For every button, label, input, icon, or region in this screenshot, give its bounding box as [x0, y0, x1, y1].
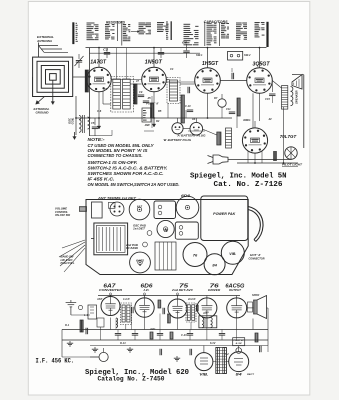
wire tube filament links: [111, 79, 141, 81]
svg-text:SW-1: SW-1: [196, 53, 203, 57]
svg-text:RESISTORS: RESISTORS: [106, 20, 126, 24]
svg-text:POINT ’A’: POINT ’A’: [146, 102, 159, 106]
loop antenna lead-down arrow: [52, 97, 54, 105]
resistor table column watts: [123, 24, 126, 25]
antenna terminal strip: [110, 202, 124, 216]
on-off switch box: [92, 202, 103, 218]
svg-text:L-1: L-1: [84, 313, 88, 317]
speaker 620 transformer: [248, 302, 253, 312]
svg-text:6.3V: 6.3V: [210, 341, 216, 345]
wire 620 extra drops: [125, 325, 127, 330]
svg-text:76: 76: [193, 253, 198, 258]
svg-text:CONNECTOR: CONNECTOR: [249, 257, 265, 261]
svg-text:R6: R6: [192, 117, 196, 121]
svg-text:SWITCH-1 IS ON-OFF.: SWITCH-1 IS ON-OFF.: [88, 160, 138, 165]
capacitor table side text: [166, 22, 168, 23]
tube V2 1N5GT: [142, 67, 167, 92]
resistor table column values: [105, 24, 109, 25]
pilot dashes: [282, 166, 298, 168]
svg-text:SPKR: SPKR: [252, 293, 259, 297]
IF transformer T2 primary: [170, 80, 178, 101]
volume control R7: [218, 99, 226, 107]
svg-text:ON MODEL 5N SWITCH,SWITCH 2A N: ON MODEL 5N SWITCH,SWITCH 2A NOT USED.: [88, 182, 180, 187]
tube socket 6A7 top view: [129, 199, 150, 220]
resistor table rule 2: [121, 21, 123, 45]
capacitor table column desc: [255, 22, 260, 23]
power plug: [208, 156, 214, 164]
resistor table left rule: [72, 22, 74, 44]
wire bus 620 mid: [62, 329, 268, 331]
loop left lead: [32, 77, 34, 97]
svg-text:1st DET: 1st DET: [133, 228, 146, 231]
cap row: [115, 333, 121, 335]
wire v7 drop: [144, 296, 146, 298]
IF transformer T1 primary: [113, 79, 121, 109]
cap 620 lower: [189, 349, 191, 355]
svg-text:’B’ BATTERY PLUG: ’B’ BATTERY PLUG: [163, 138, 191, 142]
wire bus 620 low: [62, 339, 268, 341]
svg-text:R-1: R-1: [65, 323, 70, 327]
wire V1 cathode drop: [98, 92, 100, 118]
IF transformer T1 can: [111, 77, 134, 113]
resistor R10: [274, 152, 277, 161]
svg-text:PUSH PULL: PUSH PULL: [61, 261, 75, 265]
svg-text:C8: C8: [104, 87, 108, 91]
svg-text:1st IF: 1st IF: [123, 297, 130, 301]
wire xfmr bottom: [290, 147, 292, 159]
svg-text:6.3V: 6.3V: [236, 343, 243, 345]
wire 620 vib links: [203, 346, 205, 353]
svg-text:47: 47: [135, 79, 139, 83]
capacitor table rule 1: [204, 22, 206, 46]
wire speaker bottom: [283, 107, 285, 163]
svg-text:C-23: C-23: [181, 333, 187, 337]
grid cap wires 620: [110, 295, 112, 297]
svg-text:T-2: T-2: [225, 352, 229, 356]
capacitor C8: [138, 94, 144, 96]
wire IFT drops: [116, 48, 118, 79]
junction dots: [98, 47, 100, 49]
svg-text:Spiegel, Inc. Model 5N: Spiegel, Inc. Model 5N: [190, 172, 287, 180]
svg-text:Catalog No. Z-7450: Catalog No. Z-7450: [98, 376, 165, 383]
wire V3 cathode drop: [207, 93, 209, 118]
svg-text:COIL: COIL: [71, 117, 75, 124]
svg-text:C-6: C-6: [97, 109, 102, 113]
capacitor table rule 2: [219, 22, 221, 46]
svg-text:ANT: ANT: [96, 297, 103, 301]
rectifier 84: [229, 352, 249, 372]
resistor table rule 1: [117, 21, 119, 41]
tube V3 1H5GT: [195, 68, 221, 94]
wire V1 plate drop: [98, 48, 100, 68]
svg-text:C4: C4: [170, 67, 174, 71]
svg-text:ON-OFF SW: ON-OFF SW: [55, 213, 71, 217]
tube V9 76: [197, 298, 217, 318]
tube socket 6AC5 top view: [130, 252, 151, 273]
svg-text:BC BAND: BC BAND: [126, 247, 138, 250]
wire lower left: [62, 356, 99, 358]
tube socket 84: [204, 254, 225, 275]
wire right column 620: [267, 308, 269, 346]
battery plug A: [172, 123, 183, 134]
svg-text:NOTE:-: NOTE:-: [88, 137, 106, 142]
svg-text:R5: R5: [158, 109, 162, 113]
volume pot 620: [99, 352, 108, 361]
wire bottom bus right segment: [237, 162, 298, 164]
svg-text:C11: C11: [226, 107, 231, 111]
svg-text:3MEG: 3MEG: [243, 118, 250, 122]
svg-text:3Q5GT: 3Q5GT: [253, 62, 271, 68]
svg-text:6A7: 6A7: [137, 205, 143, 209]
capacitor C13: [231, 73, 233, 79]
capacitor table left rule: [170, 21, 172, 40]
tube V10 6AC5G: [227, 298, 247, 318]
wire V4 plate to transformer: [272, 81, 281, 89]
wire V1 left pin: [86, 77, 88, 84]
svg-text:GROUND: GROUND: [36, 111, 50, 115]
output transformer T3: [282, 86, 288, 110]
wire V5 top: [254, 121, 256, 128]
pilot light box: [233, 338, 245, 346]
capacitor C10: [187, 109, 193, 111]
loop antenna tap wire: [52, 80, 54, 96]
svg-text:’A’ BATTERY PLUG: ’A’ BATTERY PLUG: [176, 133, 205, 137]
wire ant lead: [71, 314, 90, 316]
wire avc drops: [167, 103, 169, 118]
tube V6 6A7: [101, 297, 120, 316]
chassis outline: [86, 200, 248, 275]
tube V1 1A7GT: [87, 67, 112, 92]
resistor R9: [217, 132, 221, 145]
svg-text:HOT ’A’: HOT ’A’: [250, 253, 261, 257]
IF transformer 620 1: [121, 303, 132, 325]
wire V1 to IFT: [102, 91, 104, 104]
wire osc vertical: [75, 96, 77, 135]
speaker 620: [254, 300, 258, 314]
resistor R5 box: [142, 108, 151, 122]
wire V3 out: [220, 80, 246, 82]
wire bottom drops: [98, 118, 100, 129]
resistor table side text: [76, 23, 77, 24]
wire V2 plate drop: [153, 48, 155, 68]
padder capacitor C5: [92, 126, 98, 128]
wire bus 620 low2: [90, 345, 268, 347]
wire top bus: [86, 47, 267, 49]
IF can 1st: [154, 201, 176, 219]
svg-text:C15: C15: [265, 97, 270, 101]
ground symbols 620: [69, 341, 71, 343]
volume control 620 parts: [97, 318, 104, 327]
wire V4 plate drop: [259, 48, 261, 68]
trimmer capacitor C1: [76, 60, 82, 62]
capacitor table right rule: [266, 22, 268, 47]
wire left vertical: [89, 48, 91, 136]
wire V2 out: [166, 79, 169, 81]
band switch fan: [59, 240, 85, 272]
svg-text:C-10: C-10: [185, 104, 191, 108]
svg-text:1H5GT: 1H5GT: [202, 61, 219, 67]
svg-text:I.F.: I.F.: [144, 288, 150, 292]
svg-text:6AC5: 6AC5: [136, 259, 144, 263]
resistor R4: [134, 84, 137, 104]
coupling cap left: [85, 328, 87, 334]
svg-text:SW-2: SW-2: [244, 53, 251, 57]
svg-text:84: 84: [212, 263, 217, 268]
svg-text:SWITCH-2 IS A.C-D.C. & BATTER: SWITCH-2 IS A.C-D.C. & BATTERY.: [88, 166, 168, 171]
svg-text:2nd DET-AVC: 2nd DET-AVC: [171, 289, 194, 292]
wire second bus: [90, 52, 201, 54]
switch SW-2 box: [228, 51, 243, 60]
capacitor table column part no: [236, 23, 242, 24]
capacitor C6: [183, 50, 189, 52]
svg-text:DRIVER: DRIVER: [208, 289, 220, 292]
oscillator coil ground arrow: [74, 132, 76, 140]
gang capacitor: [94, 223, 128, 255]
svg-text:R-14: R-14: [120, 341, 126, 345]
svg-text:.05: .05: [147, 96, 151, 100]
wire V5 to bus: [247, 152, 249, 164]
svg-text:PILOT LIGHT: PILOT LIGHT: [282, 164, 303, 167]
wire bus 620 top: [98, 295, 240, 297]
tube V7 6D6: [135, 298, 154, 317]
svg-text:C2: C2: [103, 48, 108, 52]
svg-text:C5: C5: [91, 121, 95, 125]
svg-text:ANT TERMS 1st DET: ANT TERMS 1st DET: [97, 196, 137, 200]
antenna coil L1b: [85, 70, 88, 92]
svg-text:A.F.: A.F.: [202, 311, 208, 315]
wire v9 drop: [206, 296, 208, 298]
capacitor table column values: [207, 23, 212, 24]
small trimmer left: [78, 305, 82, 309]
svg-text:BAND SW: BAND SW: [61, 254, 75, 258]
capacitor C2: [104, 52, 110, 54]
speaker cone: [292, 75, 302, 90]
svg-text:CONNECTED TO CHASSIS.: CONNECTED TO CHASSIS.: [88, 153, 143, 158]
svg-text:Cat. No. Z-7126: Cat. No. Z-7126: [214, 181, 284, 189]
wire drops to bus: [110, 318, 112, 330]
loop antenna L1: [33, 57, 73, 96]
svg-text:PILOT LT: PILOT LT: [234, 340, 245, 342]
capacitor table column C numbers: [184, 24, 191, 25]
svg-text:ANTENNA: ANTENNA: [36, 39, 53, 43]
antenna 620: [66, 302, 77, 304]
wire V2 cathode drop: [153, 92, 155, 118]
wire v10 drop: [236, 296, 238, 298]
wire right vertical bus: [303, 75, 305, 148]
svg-text:C9: C9: [139, 90, 143, 94]
components between 620 tubes: [131, 307, 133, 313]
wire under-tube links: [90, 135, 113, 137]
svg-text:R2: R2: [156, 119, 160, 123]
resistor R6: [181, 95, 184, 123]
capacitor C14: [269, 93, 275, 95]
capacitor table column volts: [221, 23, 225, 24]
wire R3 leads: [151, 96, 153, 103]
svg-text:RECT: RECT: [247, 374, 255, 376]
wire battery links: [183, 127, 190, 129]
resistor table column part no: [139, 23, 146, 24]
wire 620 右: [247, 307, 254, 309]
capacitor C11: [229, 111, 235, 113]
resistor table dash arrow: [131, 31, 139, 33]
wire loop to V1: [73, 76, 87, 78]
hot A cord: [248, 207, 263, 242]
IF transformer T1 secondary: [123, 79, 131, 109]
svg-text:2nd IF: 2nd IF: [187, 297, 196, 301]
svg-text:.1MF: .1MF: [144, 123, 150, 127]
svg-text:SWITCHES SHOWN FOR A.C.-D.C.: SWITCHES SHOWN FOR A.C.-D.C.: [88, 171, 164, 176]
resistor row: [150, 332, 153, 339]
osc coil 620: [116, 318, 118, 328]
tube socket 75 top view: [157, 220, 174, 237]
svg-text:I.F. 456 KC.: I.F. 456 KC.: [36, 357, 75, 364]
svg-text:C6: C6: [182, 41, 187, 45]
svg-text:AVC: AVC: [149, 327, 155, 331]
svg-text:75: 75: [164, 229, 168, 233]
tube V4 3Q5GT: [247, 68, 273, 94]
oscillator coil L2: [79, 116, 81, 133]
IF transformer 620 2: [186, 303, 196, 322]
table column E: [157, 22, 164, 23]
tube V8 75: [168, 299, 187, 318]
wire T2 to V3: [180, 83, 195, 85]
power pak box: [201, 196, 248, 241]
wave trap: [88, 305, 97, 319]
external antenna symbol: [38, 43, 40, 58]
svg-text:SPEAKER: SPEAKER: [295, 90, 299, 104]
pilot lamp 620: [236, 348, 242, 354]
external ground arrow: [36, 97, 44, 104]
capacitor C12: [187, 87, 189, 93]
svg-text:R7: R7: [214, 96, 218, 100]
svg-text:VIB.: VIB.: [229, 252, 236, 256]
wire V3 plate drop: [207, 48, 209, 68]
tube socket 76: [183, 243, 207, 267]
svg-text:.02: .02: [268, 117, 272, 121]
svg-text:OUTPUT: OUTPUT: [229, 289, 242, 292]
filter choke: [226, 128, 232, 148]
resistor R8: [237, 98, 240, 116]
svg-text:VIB.: VIB.: [199, 372, 208, 376]
interstage transformer: [199, 316, 217, 328]
power cord: [228, 159, 292, 161]
svg-text:1A7GT: 1A7GT: [90, 60, 106, 66]
wire mid avc bus: [76, 117, 232, 119]
IF transformer T2 box: [167, 78, 180, 104]
tube socket VIB: [221, 241, 244, 264]
volume control shaft: [80, 207, 87, 212]
capacitor C4: [158, 52, 164, 54]
svg-text:CONVERTER: CONVERTER: [99, 288, 122, 292]
right components 620: [255, 333, 258, 342]
svg-text:POWER PAK: POWER PAK: [213, 212, 236, 216]
tube V5 70L7GT: [242, 128, 267, 153]
battery plug B: [190, 122, 203, 135]
tube socket 6D6 top view: [176, 196, 199, 219]
pilot lamp: [285, 147, 297, 159]
resistor table column R numbers: [87, 23, 95, 24]
capacitor C9: [143, 100, 149, 102]
wire v6 drop: [110, 296, 112, 297]
vibrator VIB: [195, 353, 213, 371]
resistor bottom left: [80, 320, 83, 332]
power transformer 620: [216, 348, 220, 374]
wire IFT to V2: [130, 83, 142, 85]
svg-text:LW & BC: LW & BC: [61, 258, 73, 262]
output transformer block: [155, 242, 176, 270]
svg-text:70L7GT: 70L7GT: [280, 134, 298, 139]
wire V4 drops: [259, 93, 261, 121]
svg-text:IF 455 K.C.: IF 455 K.C.: [88, 176, 115, 181]
IF can 2nd: [175, 222, 198, 239]
wire v8 drop: [177, 296, 179, 300]
resistor R3: [151, 103, 154, 118]
